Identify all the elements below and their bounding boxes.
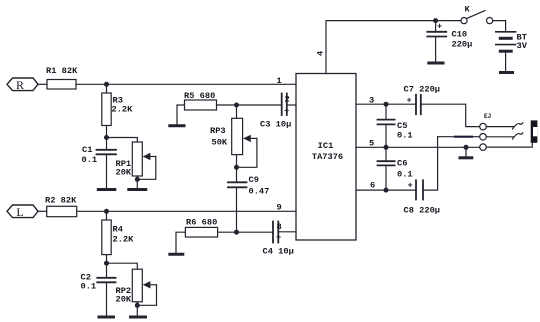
potentiometer RP3 50K — [210, 105, 257, 167]
node junction supply / C10 — [433, 18, 438, 23]
jack sleeve line — [486, 143, 532, 148]
svg-text:2.2K: 2.2K — [112, 105, 134, 115]
resistor R2 82K — [45, 196, 77, 217]
svg-text:C4 10µ: C4 10µ — [263, 247, 294, 257]
node junction R2/R4 — [104, 209, 109, 214]
wire R6 to C4 — [218, 231, 273, 233]
jack ring contact line — [486, 133, 522, 139]
ground under C10 — [429, 62, 443, 65]
plug body — [531, 120, 538, 142]
wire — [106, 126, 108, 138]
svg-text:TA7376: TA7376 — [312, 152, 343, 162]
wire — [106, 255, 108, 264]
svg-text:C9: C9 — [249, 175, 259, 185]
thick segment on ring wire — [455, 136, 472, 138]
node junction pin6/C6/C8 — [384, 188, 389, 193]
svg-text:0.1: 0.1 — [397, 131, 413, 141]
ground at R5 left — [170, 105, 185, 126]
jack sleeve terminal — [480, 144, 487, 151]
svg-text:C5: C5 — [397, 121, 407, 131]
svg-text:IC1: IC1 — [318, 141, 334, 151]
ground under battery — [501, 71, 513, 74]
potentiometer RP1 20K — [116, 142, 156, 189]
input connector L — [7, 205, 38, 219]
wire C7 to jack tip — [421, 104, 480, 126]
ground at jack sleeve — [460, 147, 472, 158]
potentiometer RP2 20K — [116, 269, 157, 316]
svg-text:R: R — [16, 78, 24, 92]
jack ring terminal — [480, 134, 487, 141]
node junction pin5/C5/C6 — [384, 145, 389, 150]
svg-text:C6: C6 — [397, 159, 407, 169]
wire L row to pin 9 — [77, 210, 296, 212]
svg-text:+: + — [407, 96, 412, 106]
jack tip contact line — [486, 123, 522, 129]
svg-text:+: + — [408, 181, 413, 191]
svg-text:1: 1 — [277, 76, 282, 86]
capacitor C3 10u pin 2 — [260, 94, 296, 130]
svg-text:50K: 50K — [212, 138, 228, 148]
capacitor C5 0.1 — [378, 104, 413, 147]
svg-text:20K: 20K — [116, 168, 132, 178]
resistor R5 680 — [184, 91, 217, 110]
svg-text:6: 6 — [370, 181, 375, 191]
svg-text:0.47: 0.47 — [249, 187, 270, 197]
node junction R3/C1/RP1 — [104, 135, 109, 140]
op-amp IC1 TA7376 — [296, 74, 356, 241]
svg-text:C7 220µ: C7 220µ — [404, 85, 441, 95]
node junction RP1 bottom — [135, 177, 140, 182]
svg-text:C1: C1 — [82, 145, 92, 155]
battery BT 3V — [496, 32, 528, 72]
svg-text:8: 8 — [277, 222, 282, 232]
svg-text:EJ: EJ — [484, 113, 491, 120]
resistor R3 2.2K — [102, 93, 133, 126]
svg-text:2.2K: 2.2K — [113, 235, 135, 245]
wire to RP1 top — [107, 138, 138, 143]
svg-text:K: K — [465, 5, 471, 15]
node junction R4/C2/RP2 — [104, 261, 109, 266]
svg-text:R2 82K: R2 82K — [45, 196, 77, 206]
node junction RP3 bottom / C9 — [234, 165, 239, 170]
svg-text:C8 220µ: C8 220µ — [404, 206, 441, 216]
resistor R1 82K — [46, 66, 78, 89]
svg-text:+: + — [437, 22, 442, 32]
wire — [38, 210, 47, 212]
svg-text:4: 4 — [316, 51, 326, 56]
svg-text:0.1: 0.1 — [81, 282, 97, 292]
node junction RP2 bottom — [135, 303, 140, 308]
capacitor C9 0.47 — [228, 167, 269, 232]
ground under RP1 — [129, 188, 146, 191]
wire to RP2 top — [107, 263, 138, 269]
svg-text:R5 680: R5 680 — [184, 91, 215, 101]
svg-text:R1 82K: R1 82K — [46, 66, 78, 76]
wire pin 4 to supply rail — [326, 21, 461, 74]
svg-text:0.1: 0.1 — [397, 170, 413, 180]
wire switch to battery — [493, 21, 506, 32]
ground under C2 — [99, 316, 114, 319]
wire pin 6 row — [356, 189, 416, 191]
capacitor C4 10u pin 8 — [263, 222, 297, 257]
wire — [38, 83, 47, 85]
svg-text:0.1: 0.1 — [82, 155, 98, 165]
svg-text:220µ: 220µ — [452, 40, 473, 50]
wire C8 to jack ring — [423, 137, 480, 190]
svg-text:3V: 3V — [517, 41, 528, 51]
svg-text:+: + — [284, 106, 289, 116]
node junction R6/C9/C4 — [234, 230, 239, 235]
capacitor C7 220u — [404, 85, 441, 115]
capacitor C8 220u — [404, 180, 441, 215]
svg-text:L: L — [16, 205, 23, 219]
resistor R6 680 — [185, 218, 217, 238]
capacitor C6 0.1 — [378, 147, 413, 190]
wire — [106, 84, 108, 93]
node junction R1/R3 — [104, 82, 109, 87]
svg-text:C10: C10 — [452, 30, 468, 40]
svg-text:2: 2 — [285, 94, 290, 104]
input connector R — [7, 78, 38, 92]
capacitor C2 0.1 — [81, 263, 116, 316]
svg-text:RP3: RP3 — [210, 126, 226, 136]
wire R row to pin 1 — [76, 83, 296, 85]
switch K — [461, 5, 493, 24]
ground at R6 left — [170, 232, 186, 254]
wire R5 to C3 — [217, 104, 282, 106]
capacitor C1 0.1 — [82, 138, 117, 189]
wire pin 3 row — [356, 103, 416, 105]
svg-text:+: + — [276, 233, 281, 243]
resistor R4 2.2K — [102, 211, 134, 254]
svg-text:R4: R4 — [113, 225, 123, 235]
wire pin 5 row to jack sleeve — [356, 146, 480, 148]
ground under C1 — [98, 188, 115, 191]
node junction pin3/C5/C7 — [384, 102, 389, 107]
svg-text:R6 680: R6 680 — [186, 218, 217, 228]
svg-text:C3 10µ: C3 10µ — [260, 120, 291, 130]
svg-text:20K: 20K — [116, 295, 132, 305]
jack tip terminal — [480, 123, 487, 130]
ground under RP2 — [131, 316, 146, 319]
node junction sleeve ground — [464, 145, 469, 150]
capacitor C10 220u — [427, 21, 472, 63]
node junction R5/RP3/C3 — [234, 103, 239, 108]
